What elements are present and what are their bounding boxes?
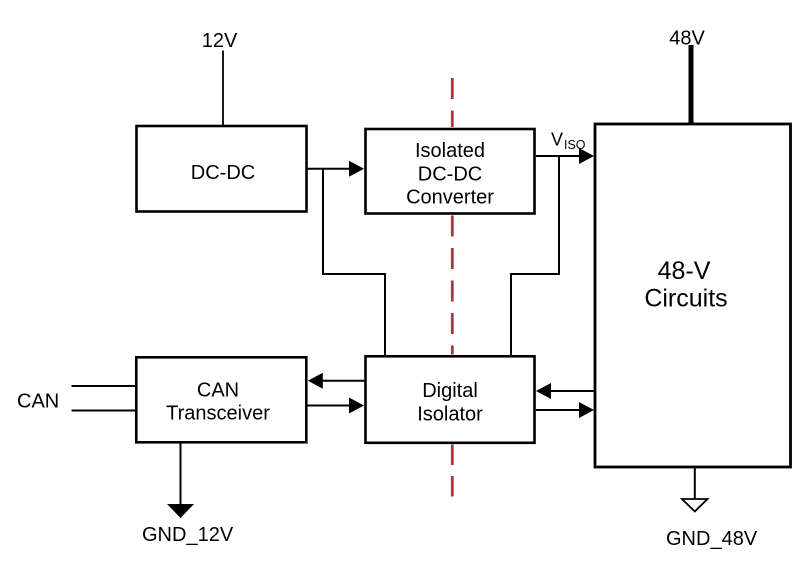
block 48-V Circuits: [595, 124, 791, 467]
svg-text:Circuits: Circuits: [644, 285, 727, 313]
svg-text:ISO: ISO: [564, 138, 586, 152]
wire branch from DC-DC output down to Digital Isolator: [323, 169, 385, 355]
block CAN Transceiver: [136, 357, 306, 442]
svg-text:Digital: Digital: [422, 380, 478, 402]
wire branch from VISO down to Digital Isolator: [511, 156, 559, 355]
arrowhead into CAN Transceiver: [308, 373, 323, 389]
svg-text:12V: 12V: [202, 30, 238, 52]
block Isolated DC-DC Converter: [366, 129, 535, 214]
svg-text:Isolated: Isolated: [415, 140, 485, 162]
svg-text:48-V: 48-V: [658, 257, 711, 285]
block Digital Isolator: [366, 356, 535, 443]
wire Isolated Converter output VISO to 48-V Circuits: [536, 155, 580, 157]
ground GND_48V arrow (open): [682, 499, 708, 512]
isolation barrier red dashed line (upper segment): [451, 78, 454, 127]
wire Digital Isolator to CAN Transceiver (upper, leftward): [322, 380, 365, 382]
svg-text:DC-DC: DC-DC: [191, 162, 255, 184]
ground GND_12V arrow (filled): [167, 504, 194, 518]
wire CAN high line: [72, 385, 136, 387]
svg-text:Converter: Converter: [406, 187, 494, 209]
isolation barrier red dashed line (lower segment): [451, 445, 454, 499]
wire 48-V Circuits to GND_48V: [694, 468, 696, 500]
wire 48-V Circuits to Digital Isolator (upper, leftward): [550, 390, 594, 392]
wire Digital Isolator to 48-V Circuits (lower, rightward): [536, 409, 580, 411]
svg-text:CAN: CAN: [17, 391, 59, 413]
arrowhead into Digital Isolator: [349, 398, 364, 414]
arrowhead into 48-V Circuits: [579, 402, 594, 418]
svg-text:GND_48V: GND_48V: [666, 528, 758, 550]
svg-text:DC-DC: DC-DC: [418, 164, 482, 186]
arrowhead into Digital Isolator: [536, 383, 551, 399]
isolation barrier red dashed line (middle segment): [451, 216, 454, 355]
svg-text:Isolator: Isolator: [417, 404, 483, 426]
arrowhead into 48-V Circuits: [579, 148, 594, 164]
wire CAN low line: [72, 410, 136, 412]
svg-text:Transceiver: Transceiver: [166, 403, 270, 425]
wire CAN Transceiver to Digital Isolator (lower, rightward): [308, 405, 351, 407]
svg-text:CAN: CAN: [197, 380, 239, 402]
wire DC-DC output to Isolated DC-DC Converter: [307, 168, 351, 170]
block DC-DC: [137, 126, 307, 212]
wire CAN Transceiver to GND_12V: [180, 444, 182, 505]
arrowhead into Isolated DC-DC Converter: [349, 161, 364, 177]
svg-text:V: V: [551, 130, 563, 150]
wire 12V supply to DC-DC: [222, 51, 224, 127]
wire 48V supply to 48-V Circuits (thick): [689, 45, 694, 123]
svg-text:48V: 48V: [669, 28, 705, 50]
svg-text:GND_12V: GND_12V: [142, 524, 234, 546]
